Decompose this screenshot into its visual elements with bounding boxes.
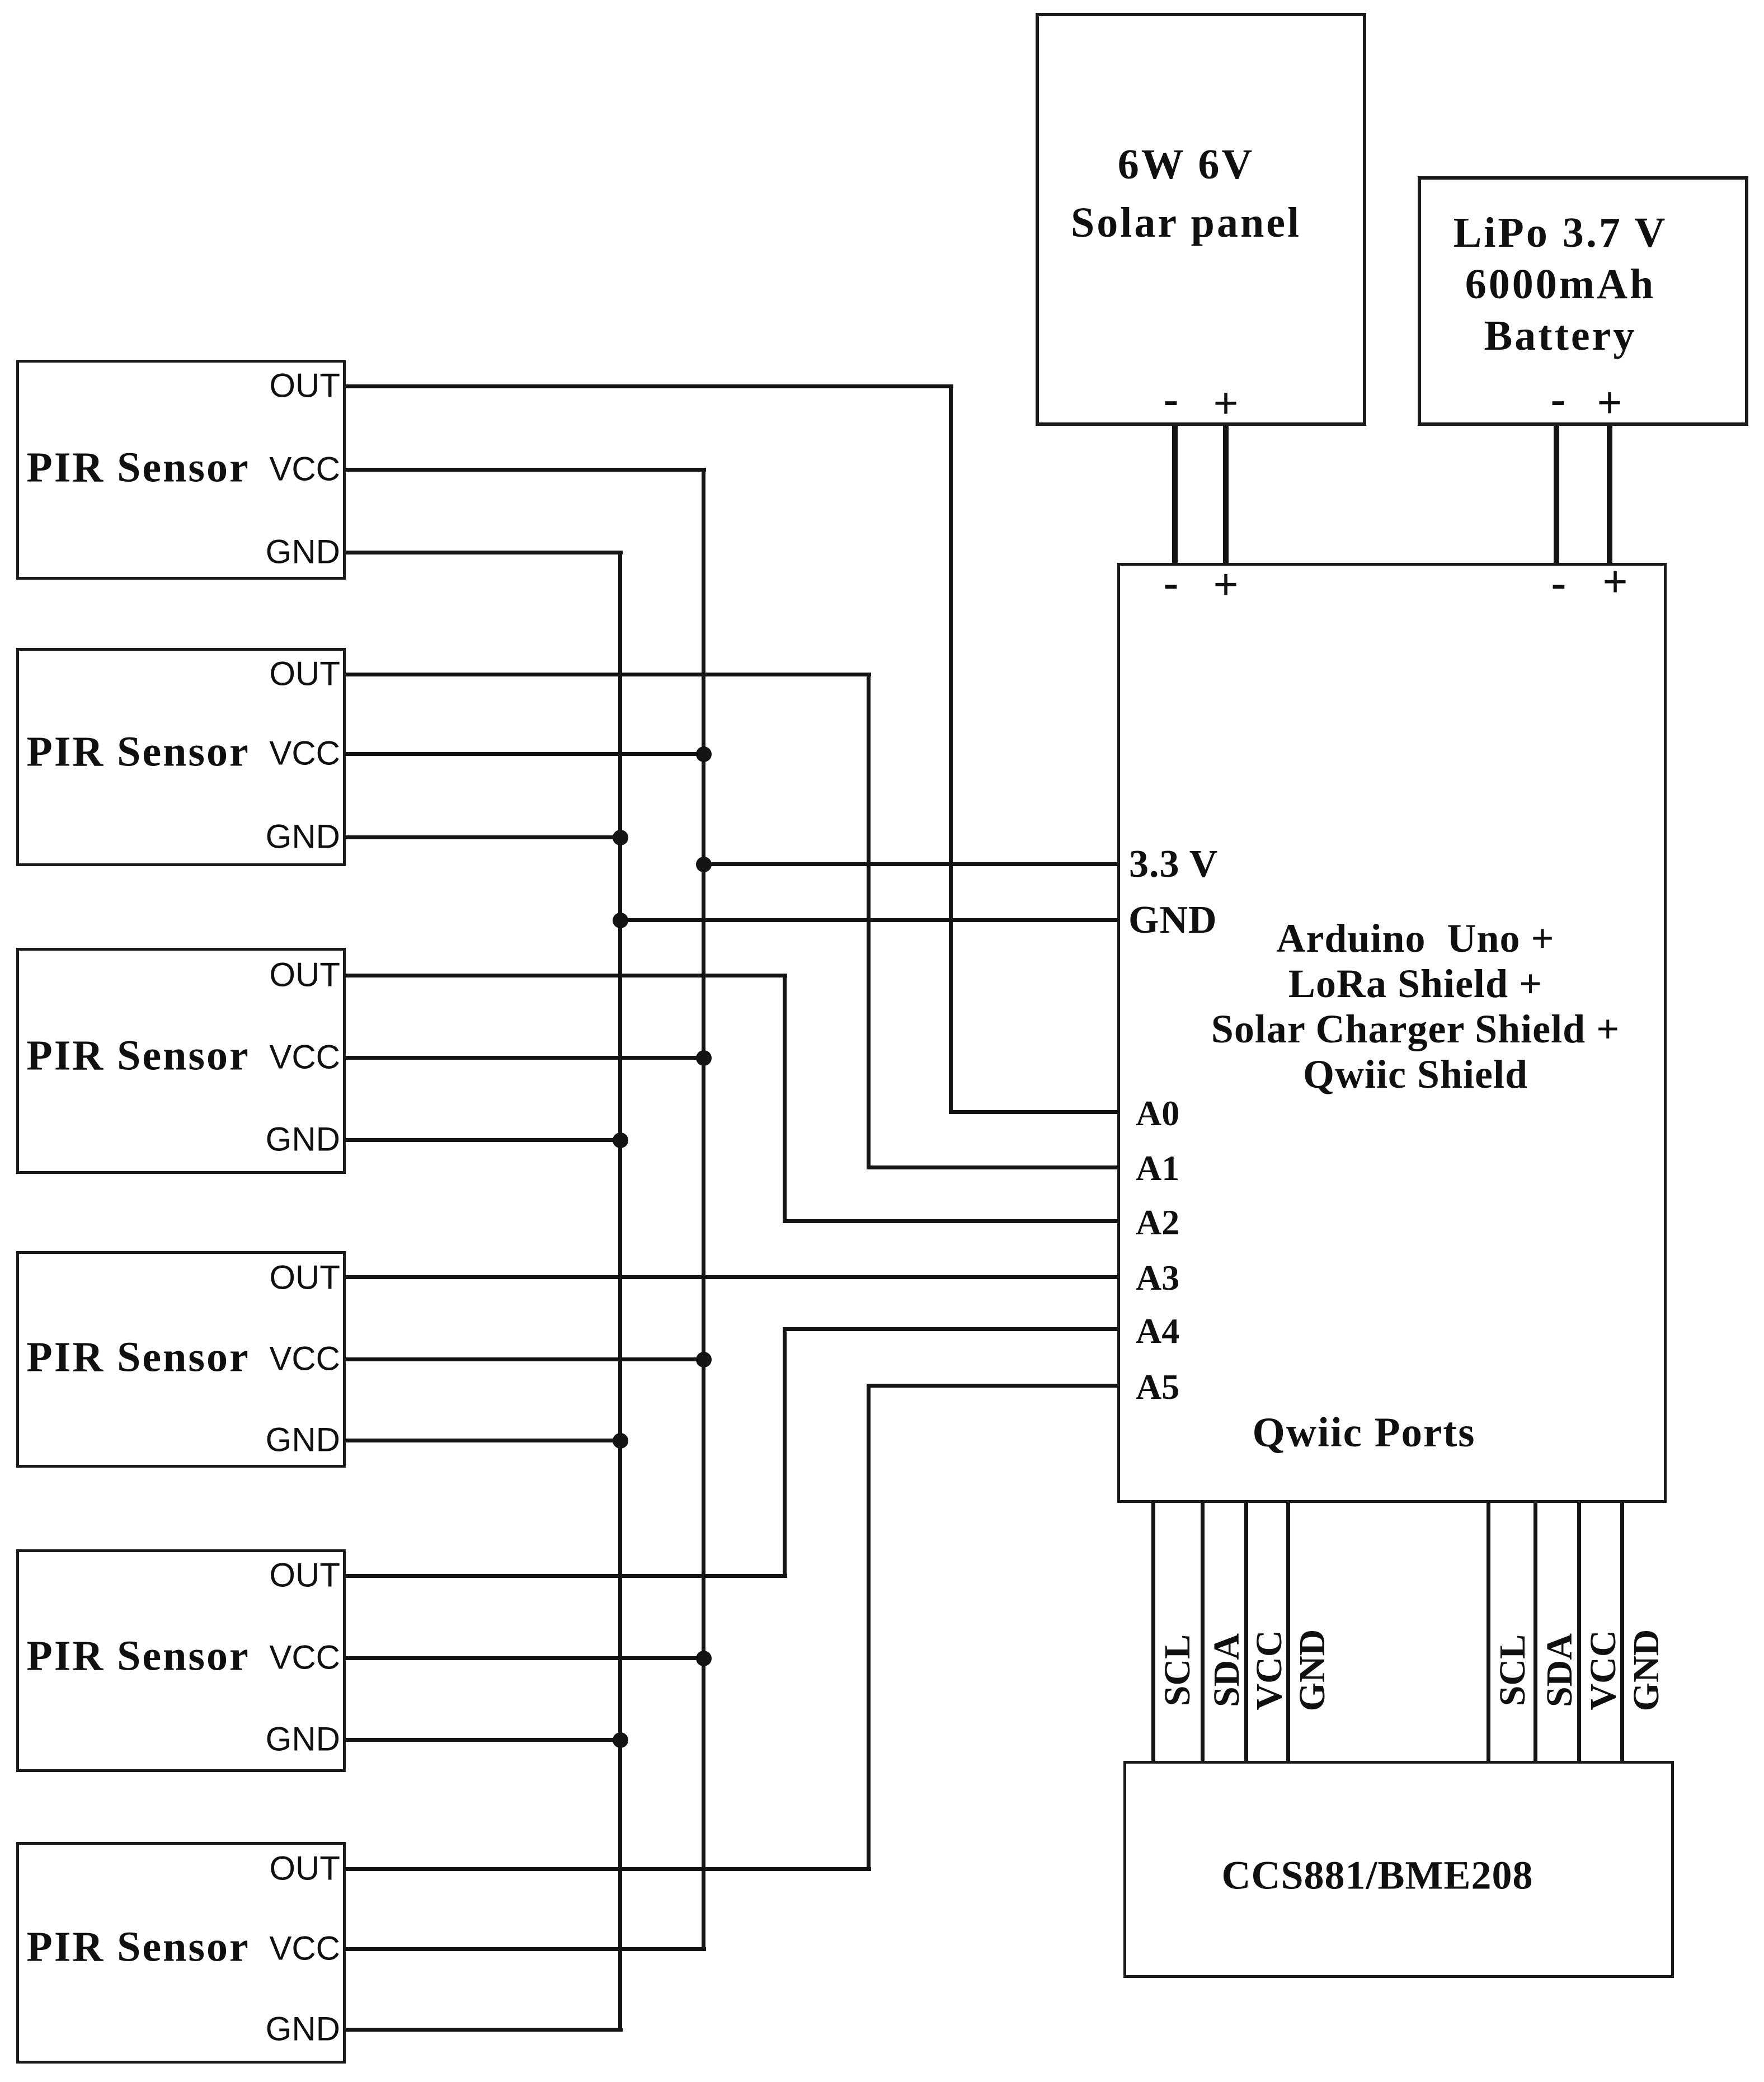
- wire qwiic GND left: [1286, 1503, 1290, 1761]
- PIR sensor 5 box: [16, 1549, 346, 1772]
- wire battery plus vertical: [1607, 426, 1612, 563]
- junction PIR5 VCC on VCC bus: [696, 1651, 712, 1666]
- wire PIR1 VCC horizontal: [346, 468, 706, 472]
- CCS881/BME208 label: [1221, 1853, 1533, 1899]
- wire battery minus vertical: [1554, 426, 1559, 563]
- qwiic label SCL left: [1156, 1634, 1199, 1706]
- wire PIR5 GND horizontal: [346, 1738, 623, 1742]
- PIR sensor 5 label: [26, 1632, 250, 1681]
- PIR sensor 4 box: [16, 1251, 346, 1468]
- wire PIR1 GND horizontal: [346, 551, 623, 554]
- junction 3.3V row on VCC bus: [696, 857, 712, 872]
- junction PIR2 GND on GND bus: [613, 830, 628, 845]
- arduino pin label A2: [1136, 1202, 1179, 1243]
- wire PIR4 OUT to A3 horizontal: [346, 1275, 1117, 1279]
- wire PIR5 VCC horizontal: [346, 1656, 706, 1660]
- PIR sensor 4 label: [26, 1333, 250, 1382]
- arduino uno shield stack box U1: [1117, 563, 1667, 1503]
- PIR1 pin OUT label: [269, 366, 340, 405]
- battery box: [1418, 176, 1748, 426]
- wire A5 to OUT6 vertical: [867, 1386, 871, 1869]
- wire qwiic VCC right: [1577, 1503, 1581, 1761]
- PIR sensor 2 box: [16, 648, 346, 866]
- junction GND row on GND bus: [613, 913, 628, 928]
- PIR2 pin OUT label: [269, 655, 340, 693]
- wire qwiic SCL right: [1487, 1503, 1490, 1761]
- wire OUT3 to A2 vertical: [783, 976, 787, 1221]
- junction PIR4 GND on GND bus: [613, 1433, 628, 1449]
- qwiic label SDA right: [1539, 1633, 1581, 1707]
- PIR sensor 6 label: [26, 1923, 250, 1972]
- wire PIR3 VCC horizontal: [346, 1056, 706, 1060]
- arduino qwiic ports label: [1253, 1409, 1476, 1457]
- PIR4 pin VCC label: [269, 1340, 340, 1378]
- PIR sensor 6 box: [16, 1842, 346, 2064]
- wire PIR1 OUT horizontal: [346, 384, 953, 388]
- PIR6 pin OUT label: [269, 1849, 340, 1888]
- arduino label: [1211, 916, 1620, 1097]
- PIR5 pin OUT label: [269, 1556, 340, 1595]
- PIR4 pin GND label: [266, 1421, 340, 1459]
- solar panel box: [1036, 13, 1366, 426]
- junction PIR3 GND on GND bus: [613, 1132, 628, 1148]
- wire qwiic SDA left: [1201, 1503, 1205, 1761]
- wire GND row horizontal: [618, 918, 1117, 922]
- wire PIR3 OUT horizontal: [346, 974, 787, 977]
- battery label: [1453, 207, 1668, 361]
- junction PIR2 VCC on VCC bus: [696, 746, 712, 762]
- wire A4 to OUT5 vertical: [783, 1329, 787, 1576]
- wire PIR5 OUT horizontal: [346, 1574, 787, 1578]
- PIR3 pin OUT label: [269, 956, 340, 994]
- arduino pin label A0: [1136, 1093, 1179, 1134]
- wire VCC bus vertical: [702, 470, 705, 1949]
- PIR2 pin GND label: [266, 817, 340, 856]
- junction PIR5 GND on GND bus: [613, 1732, 628, 1748]
- wire solar plus vertical: [1223, 426, 1229, 563]
- PIR4 pin OUT label: [269, 1258, 340, 1297]
- PIR6 pin GND label: [266, 2010, 340, 2048]
- wire PIR6 GND horizontal: [346, 2028, 623, 2032]
- PIR2 pin VCC label: [269, 734, 340, 773]
- wire PIR2 GND horizontal: [346, 835, 623, 839]
- wire PIR2 OUT horizontal: [346, 673, 871, 676]
- arduino pin label A3: [1136, 1257, 1179, 1299]
- wire A0 row horizontal: [949, 1110, 1117, 1114]
- arduino terminal + (battery): [1602, 557, 1628, 608]
- wire A5 row horizontal: [867, 1384, 1117, 1388]
- wire OUT1 to A0 vertical: [949, 387, 953, 1112]
- arduino pin label GND: [1128, 898, 1217, 943]
- wire qwiic GND right: [1620, 1503, 1624, 1761]
- wire qwiic VCC left: [1244, 1503, 1248, 1761]
- PIR sensor 2 label: [26, 728, 250, 777]
- PIR5 pin GND label: [266, 1720, 340, 1759]
- wire 3.3V row horizontal: [702, 862, 1117, 866]
- CCS881/BME208 sensor box U2: [1123, 1761, 1674, 1978]
- qwiic label GND right: [1625, 1629, 1668, 1712]
- wire GND bus vertical: [618, 553, 622, 2030]
- wire PIR3 GND horizontal: [346, 1138, 623, 1142]
- wire A4 row horizontal: [783, 1327, 1117, 1331]
- qwiic label VCC left: [1248, 1630, 1291, 1710]
- arduino terminal - (solar): [1164, 558, 1179, 609]
- solar panel terminal -: [1164, 374, 1179, 425]
- PIR5 pin VCC label: [269, 1638, 340, 1677]
- wire A1 row horizontal: [867, 1165, 1117, 1169]
- wire PIR4 VCC horizontal: [346, 1357, 706, 1361]
- wire PIR6 VCC horizontal: [346, 1947, 706, 1951]
- arduino pin label 3.3V: [1129, 842, 1218, 887]
- PIR sensor 3 label: [26, 1032, 250, 1080]
- arduino pin label A4: [1136, 1310, 1179, 1352]
- PIR sensor 1 box: [16, 360, 346, 580]
- arduino pin label A1: [1136, 1148, 1179, 1189]
- arduino pin label A5: [1136, 1366, 1179, 1408]
- wire PIR4 GND horizontal: [346, 1439, 623, 1442]
- PIR3 pin VCC label: [269, 1038, 340, 1077]
- battery terminal +: [1597, 378, 1622, 429]
- wire A2 row horizontal: [783, 1219, 1117, 1223]
- PIR6 pin VCC label: [269, 1929, 340, 1968]
- wire solar minus vertical: [1172, 426, 1178, 563]
- PIR3 pin GND label: [266, 1120, 340, 1159]
- solar panel terminal +: [1213, 379, 1239, 430]
- wire PIR2 VCC horizontal: [346, 752, 706, 756]
- wire qwiic SDA right: [1533, 1503, 1537, 1761]
- solar panel label: [1071, 135, 1301, 252]
- qwiic label SCL right: [1492, 1634, 1534, 1706]
- junction PIR4 VCC on VCC bus: [696, 1352, 712, 1367]
- battery terminal -: [1551, 374, 1566, 425]
- arduino terminal + (solar): [1213, 560, 1239, 611]
- qwiic label GND left: [1291, 1629, 1334, 1712]
- PIR1 pin VCC label: [269, 450, 340, 488]
- PIR sensor 3 box: [16, 948, 346, 1174]
- junction PIR3 VCC on VCC bus: [696, 1050, 712, 1066]
- PIR1 pin GND label: [266, 533, 340, 571]
- qwiic label SDA left: [1206, 1633, 1248, 1707]
- wire PIR6 OUT horizontal: [346, 1867, 871, 1871]
- arduino terminal - (battery): [1551, 558, 1567, 609]
- qwiic label VCC right: [1582, 1630, 1625, 1710]
- wire qwiic SCL left: [1151, 1503, 1155, 1761]
- wire OUT2 to A1 vertical: [867, 675, 871, 1168]
- PIR sensor 1 label: [26, 444, 250, 492]
